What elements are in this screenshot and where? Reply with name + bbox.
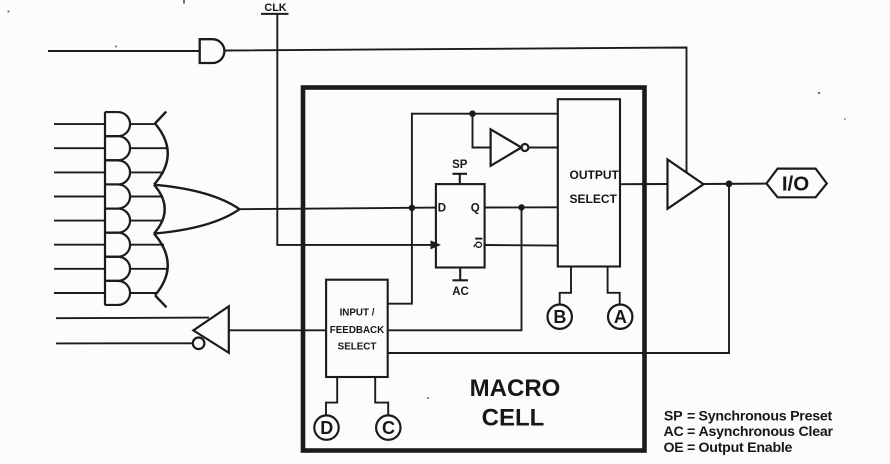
wire OE enable line to tri-state buffer — [224, 48, 686, 173]
svg-text:Q: Q — [471, 203, 480, 215]
svg-text:SP: SP — [452, 159, 468, 171]
svg-text:D: D — [438, 203, 446, 215]
svg-text:SELECT: SELECT — [338, 342, 377, 353]
and-gate array (8 product terms), shared input edge — [105, 112, 130, 305]
legend — [664, 408, 834, 456]
fuse circle B — [548, 305, 572, 329]
svg-text:I/O: I/O — [782, 173, 809, 196]
svg-text:INPUT /: INPUT / — [340, 307, 375, 318]
I/O pad — [766, 169, 826, 198]
wire OR output to flip-flop D input — [240, 208, 437, 210]
wire output select to tri-state buffer — [620, 183, 668, 185]
wire bypass branch to inverter input — [473, 114, 491, 148]
wire input/feedback select to fuse D — [326, 377, 337, 415]
svg-text:OUTPUT: OUTPUT — [570, 168, 620, 182]
d-flip-flop U1 — [436, 184, 485, 267]
wire Q feedback to input/feedback select — [388, 207, 522, 330]
junction: OR output node — [409, 205, 415, 211]
label MACRO CELL — [470, 375, 561, 432]
wire Q-bar output to output select — [485, 244, 558, 247]
wire output select to fuse B — [560, 267, 571, 305]
svg-text:D: D — [320, 418, 333, 438]
svg-text:CELL: CELL — [482, 405, 545, 432]
wires: product-term outputs into OR gate — [130, 124, 168, 293]
wire combinational bypass to output select — [412, 114, 558, 208]
tri-state output buffer U3 — [668, 160, 704, 209]
pin SP (synchronous preset) — [452, 159, 468, 184]
macro cell boundary — [303, 88, 645, 451]
svg-text:C: C — [382, 418, 395, 438]
svg-text:SP=Synchronous Preset: SP=Synchronous Preset — [664, 408, 833, 424]
junction: bypass to inverter branch — [469, 110, 476, 117]
svg-text:MACRO: MACRO — [470, 375, 561, 402]
block: OUTPUT SELECT — [558, 99, 620, 266]
feedback buffer U4 (true/complement outputs) — [193, 306, 229, 353]
junction: Q feedback node — [518, 204, 524, 210]
block: INPUT / FEEDBACK SELECT — [326, 280, 388, 377]
svg-text:AC=Asynchronous Clear: AC=Asynchronous Clear — [664, 424, 834, 440]
wires: AND-array input lines (8 product-term inputs) — [54, 124, 105, 293]
or-gate (sum of product terms) — [154, 112, 240, 308]
inverter U2 (bypass complement) — [491, 129, 529, 166]
svg-text:AC: AC — [452, 286, 469, 298]
pin AC (asynchronous clear) — [452, 268, 469, 299]
svg-text:A: A — [614, 307, 627, 327]
wire I/O feedback to input/feedback select — [388, 184, 729, 353]
wire buffer output to I/O pad — [704, 183, 767, 185]
svg-text:SELECT: SELECT — [570, 192, 618, 206]
and-gate OE product term — [200, 39, 225, 63]
wire input/feedback select to feedback buffer — [229, 329, 326, 331]
fuse circle A — [608, 305, 632, 329]
fuse circle C — [376, 415, 400, 439]
wire CLK to flip-flop clock input — [277, 15, 441, 250]
junction: I/O node — [726, 180, 733, 187]
wire feedback true output — [56, 317, 209, 320]
wire OR-output feedback to input/feedback select — [388, 208, 412, 304]
svg-text:CLK: CLK — [264, 2, 286, 14]
wire output select to fuse A — [608, 267, 620, 305]
svg-text:B: B — [553, 307, 566, 327]
wire input/feedback select to fuse C — [375, 377, 388, 415]
svg-text:FEEDBACK: FEEDBACK — [330, 325, 384, 336]
fuse circle D — [314, 415, 338, 439]
wire inverter output to output select — [528, 147, 557, 149]
svg-text:Q: Q — [474, 241, 485, 248]
wire Q output to output select — [485, 206, 558, 208]
node CLK — [261, 2, 289, 14]
svg-text:OE=Output Enable: OE=Output Enable — [664, 440, 793, 456]
wire OE product-term input — [48, 50, 200, 52]
wire feedback complement output — [56, 342, 193, 344]
